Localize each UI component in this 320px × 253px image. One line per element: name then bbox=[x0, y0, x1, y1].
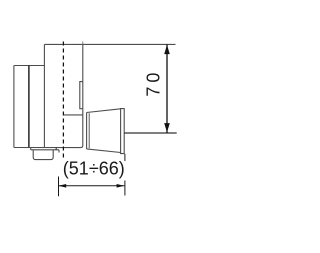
right extension line of bottom dim (lower) bbox=[124, 181, 126, 196]
step left vertical bbox=[43, 44, 45, 147]
arrow down of dim 70 bbox=[164, 123, 170, 132]
flange bbox=[121, 109, 125, 154]
right extension line of bottom dim (upper) bbox=[124, 154, 126, 161]
body left edge bbox=[13, 66, 15, 148]
svg-text:(51÷66): (51÷66) bbox=[63, 158, 125, 178]
cone bottom edge bbox=[87, 149, 121, 153]
nub outer left wall bbox=[30, 148, 32, 150]
arrow up of dim 70 bbox=[164, 45, 170, 54]
stub / extension line for 70 bottom bbox=[124, 132, 177, 134]
mid horizontal line bbox=[63, 114, 82, 116]
top edge / extension line for 70 bbox=[44, 43, 175, 45]
step junction vertical bbox=[55, 148, 57, 150]
left extension line of bottom dim bbox=[58, 177, 60, 197]
arrow right of bottom dim bbox=[117, 184, 125, 188]
arrow left of bottom dim bbox=[59, 184, 67, 188]
body interior line bbox=[28, 66, 30, 148]
bottom nub bucket bbox=[33, 150, 53, 160]
clip detail on right wall bbox=[80, 82, 83, 109]
tick above top edge bbox=[82, 42, 84, 45]
dimension line 70 bbox=[166, 44, 168, 133]
step right vertical wall bbox=[80, 44, 82, 147]
bottom dimension line bbox=[58, 185, 124, 187]
body bottom edge bbox=[14, 147, 81, 149]
body top edge bbox=[14, 65, 45, 67]
step right hook bbox=[58, 150, 60, 153]
svg-text:70: 70 bbox=[144, 69, 164, 97]
cone left edge bbox=[86, 113, 88, 149]
bottom step lip line bbox=[31, 149, 59, 151]
dashed center line bbox=[62, 42, 64, 160]
cone inner line bbox=[88, 113, 90, 148]
cone top edge bbox=[87, 109, 121, 113]
